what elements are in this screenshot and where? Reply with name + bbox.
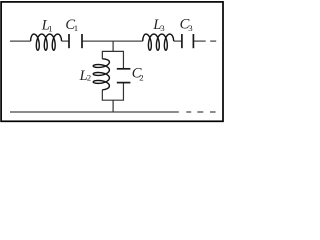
- bottom dash 2: [197, 111, 203, 113]
- wire shunt top rail: [102, 51, 123, 68]
- inductor L1: [31, 34, 62, 50]
- bottom dash 3: [210, 111, 216, 113]
- svg-text:1: 1: [74, 23, 78, 33]
- wire L1 to C1: [62, 40, 69, 42]
- inductor L3: [143, 34, 174, 50]
- wire shunt bottom rail: [102, 83, 123, 101]
- capacitor C1 plate 2: [81, 34, 83, 48]
- top dash continuation: [210, 40, 216, 42]
- capacitor C2 plate bottom: [117, 82, 131, 84]
- wire C3 stub right: [193, 40, 205, 42]
- capacitor C1 plate 1: [68, 34, 70, 48]
- inductor L2 (vertical): [93, 59, 109, 90]
- svg-text:1: 1: [48, 24, 52, 34]
- svg-text:3: 3: [188, 23, 193, 33]
- wire C1 to L3: [82, 40, 143, 42]
- capacitor C3 plate 1: [181, 34, 183, 48]
- capacitor C2 plate top: [117, 68, 131, 70]
- wire top-left input: [10, 40, 31, 42]
- node stub bottom junction: [112, 100, 114, 112]
- node stub top junction: [112, 41, 114, 51]
- svg-text:2: 2: [87, 73, 91, 83]
- bottom wire: [10, 111, 179, 113]
- border frame: [1, 2, 223, 121]
- capacitor C3 plate 2: [192, 34, 194, 48]
- bottom dash 1: [186, 111, 191, 113]
- svg-text:3: 3: [160, 23, 165, 33]
- svg-text:2: 2: [139, 73, 143, 83]
- wire L3 to C3: [174, 40, 182, 42]
